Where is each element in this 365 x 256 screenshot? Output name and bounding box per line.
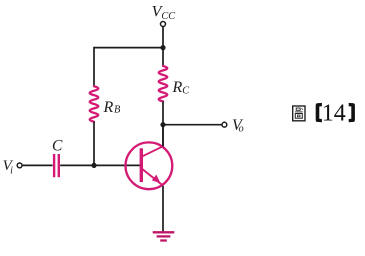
svg-text:14: 14	[322, 100, 346, 126]
terminal VCC	[161, 22, 166, 27]
junction top rail	[160, 45, 165, 50]
terminal Vo	[222, 122, 227, 127]
wire Vcc to rail	[162, 27, 164, 48]
label Vo	[232, 117, 244, 135]
svg-text:o: o	[239, 124, 244, 135]
figure caption bracket right	[349, 103, 355, 122]
svg-text:CC: CC	[161, 11, 175, 22]
wire emitter to ground	[162, 186, 164, 232]
figure caption 圖 glyph	[293, 106, 305, 121]
wire rail to RB	[93, 47, 95, 87]
wire RC to collector node	[162, 101, 164, 146]
transistor Q1 collector line	[141, 146, 163, 157]
svg-text:i: i	[10, 165, 13, 176]
wire rail to RC	[162, 48, 164, 66]
svg-text:R: R	[103, 99, 114, 116]
wire top rail	[94, 47, 163, 49]
resistor RC	[159, 66, 168, 101]
transistor Q1 emitter arrow	[152, 175, 161, 184]
transistor Q1 emitter line	[141, 168, 163, 186]
terminal Vi	[17, 163, 22, 168]
transistor Q1 circle	[125, 142, 172, 189]
wire capacitor to base	[60, 164, 140, 166]
resistor RB	[90, 86, 99, 121]
wire Vi to capacitor	[22, 164, 52, 166]
label RC	[172, 79, 190, 97]
junction base node	[91, 163, 96, 168]
figure caption bracket left	[316, 103, 322, 122]
svg-text:C: C	[182, 86, 189, 97]
label RB	[103, 99, 122, 116]
wire collector lead	[162, 125, 164, 146]
capacitor C	[54, 154, 59, 177]
ground	[153, 232, 175, 240]
junction collector node	[160, 122, 165, 127]
svg-text:B: B	[114, 105, 121, 116]
label Vi	[3, 158, 14, 177]
node VCC label	[152, 3, 176, 22]
svg-text:R: R	[172, 79, 183, 96]
svg-text:C: C	[52, 138, 63, 155]
transistor Q1 base bar	[140, 148, 143, 182]
wire RB to base node	[93, 122, 95, 166]
wire collector node to Vo	[163, 124, 222, 126]
